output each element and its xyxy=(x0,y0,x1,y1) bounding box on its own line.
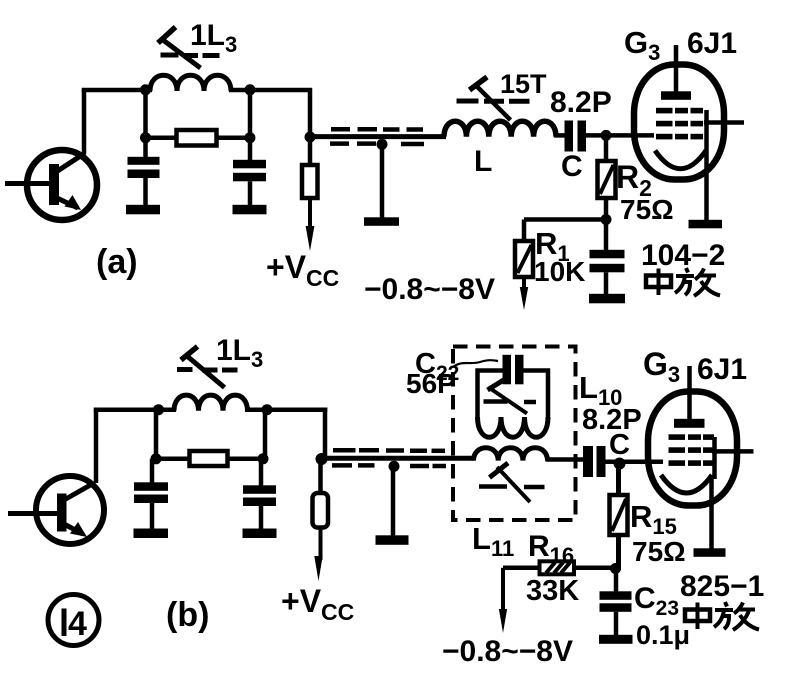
wire L11 to cap C (b) xyxy=(546,457,585,462)
bias arrow R1 (a) xyxy=(520,287,528,310)
svg-text:0.1μ: 0.1μ xyxy=(636,620,690,650)
resistor R1 xyxy=(515,241,533,291)
node lower-left xyxy=(140,132,151,143)
wire down mid branch (b) xyxy=(263,410,268,460)
adjustable core of L 15T xyxy=(457,77,530,120)
node lower-left (b) xyxy=(151,453,162,464)
wire R16 to bias arrow xyxy=(503,568,540,612)
wire shield ground stub (b) xyxy=(391,466,396,537)
wire coax center (a) xyxy=(310,134,446,139)
svg-text:15T: 15T xyxy=(500,69,547,99)
transistor Q2 xyxy=(8,476,104,544)
vacuum tube V1 6J1 (a) xyxy=(634,45,744,220)
node coax feed (b) xyxy=(316,453,328,465)
wire top rail left xyxy=(82,88,152,93)
inductor L11 winding xyxy=(474,448,548,461)
wire cap to tube grid (b) xyxy=(606,460,664,465)
adjustable core of L3 (a) xyxy=(158,27,220,68)
inductor L3 (b) xyxy=(174,395,248,411)
ground cathode (a) xyxy=(689,220,723,229)
wire top rail right (b) xyxy=(245,407,327,412)
capacitor left (a) xyxy=(128,139,160,206)
node top-right xyxy=(245,84,256,95)
wire shield ground stub (a) xyxy=(380,144,385,219)
capacitor C 8.2P (b) xyxy=(583,446,606,477)
leader line C22 xyxy=(453,360,498,367)
node R15 top xyxy=(614,458,626,470)
capacitor left (b) xyxy=(134,459,168,530)
figure number 14 xyxy=(48,595,99,646)
svg-text:75Ω: 75Ω xyxy=(620,194,674,225)
resistor R16 xyxy=(540,561,575,574)
wire cap to tube grid (a) xyxy=(586,133,654,138)
capacitor C23 xyxy=(600,569,632,637)
node top-right (b) xyxy=(262,404,273,415)
label zhongfang (b) xyxy=(685,602,759,630)
svg-text:10K: 10K xyxy=(534,256,585,287)
wire to R1 xyxy=(524,220,606,243)
vacuum tube V2 6J1 (b) xyxy=(648,366,754,549)
resistor feedback (a) xyxy=(177,130,217,146)
node lower-right xyxy=(245,132,256,143)
node shield ground (a) xyxy=(377,139,388,150)
svg-text:75Ω: 75Ω xyxy=(632,536,686,567)
ground C23 xyxy=(599,635,633,644)
adjustable core of L11 xyxy=(479,463,545,502)
svg-text:(a): (a) xyxy=(96,243,138,281)
node R2 top (a) xyxy=(601,130,612,141)
coax shield dashes bottom (a) xyxy=(330,141,424,146)
resistor R15 xyxy=(610,464,628,571)
ground mid cap (b) xyxy=(243,529,277,539)
wire corner down right (b) xyxy=(323,408,328,461)
power +Vcc arrow (b) xyxy=(314,556,322,581)
svg-text:33K: 33K xyxy=(526,575,579,607)
capacitor C 8.2P (a) xyxy=(565,121,587,152)
ground bypass cap (a) xyxy=(589,294,625,304)
label zhongfang (a) xyxy=(646,268,720,296)
inductor L3 (a) xyxy=(150,75,231,91)
ground left cap (b) xyxy=(134,529,169,539)
dashed box IF transformer xyxy=(453,347,576,521)
wire down mid branch xyxy=(248,90,253,139)
node top-left xyxy=(140,84,151,95)
node coax feed (a) xyxy=(305,132,316,143)
wire down left branch xyxy=(143,90,148,139)
node R15 bottom xyxy=(610,563,621,574)
resistor feedback (b) xyxy=(190,451,228,466)
node shield ground (b) xyxy=(389,461,400,472)
wire lower rail xyxy=(146,135,251,140)
wire coil to cap C (a) xyxy=(554,133,566,138)
ground shield (a) xyxy=(364,217,399,226)
svg-text:L: L xyxy=(474,145,492,178)
wire collector Q1 up xyxy=(82,90,87,154)
node top-left (b) xyxy=(153,404,164,415)
svg-text:825−1: 825−1 xyxy=(680,570,764,603)
node R2 bottom xyxy=(601,214,612,225)
inductor L 15T (a) xyxy=(444,121,556,137)
coax shield dashes top (a) xyxy=(331,127,423,132)
wire down left branch (b) xyxy=(154,410,159,460)
wire corner down right xyxy=(308,88,313,139)
wire lower rail (b) xyxy=(156,457,265,462)
svg-text:56P: 56P xyxy=(406,368,456,399)
resistor Vcc feed (b) xyxy=(313,459,329,560)
svg-text:C: C xyxy=(609,429,630,461)
wire collector Q2 up xyxy=(94,410,99,483)
adjustable core of L10 xyxy=(484,379,537,414)
coax shield dashes bottom (b) xyxy=(332,463,446,468)
capacitor mid (b) xyxy=(243,459,276,530)
svg-text:8.2P: 8.2P xyxy=(550,86,612,119)
transistor Q1 xyxy=(5,150,97,220)
ground mid cap (a) xyxy=(233,205,267,215)
power +Vcc arrow (a) xyxy=(306,226,315,251)
resistor R2 xyxy=(598,135,616,222)
adjustable core of L3 (b) xyxy=(177,347,238,388)
svg-text:−0.8~−8V: −0.8~−8V xyxy=(364,273,495,306)
coax shield dashes top (b) xyxy=(333,448,445,453)
resistor Vcc feed (a) xyxy=(302,139,318,231)
ground shield (b) xyxy=(376,535,409,545)
capacitor bypass (a) xyxy=(590,222,625,295)
wire top rail left (b) xyxy=(94,407,176,412)
svg-text:104−2: 104−2 xyxy=(641,239,725,272)
svg-text:−0.8~−8V: −0.8~−8V xyxy=(442,635,573,668)
wire R15 to R16 xyxy=(574,566,615,571)
svg-text:6J1: 6J1 xyxy=(687,27,737,60)
svg-text:(b): (b) xyxy=(166,596,209,634)
wire top rail right xyxy=(229,88,312,93)
inductor L10 winding xyxy=(478,417,549,437)
node lower-right (b) xyxy=(258,453,269,464)
ground left cap (a) xyxy=(126,205,160,215)
winding L10 loop xyxy=(476,369,551,420)
capacitor mid (a) xyxy=(233,139,266,206)
ground cathode (b) xyxy=(694,548,726,557)
capacitor C22 xyxy=(503,355,524,385)
svg-text:C: C xyxy=(561,150,583,183)
bias arrow (b) xyxy=(499,609,507,633)
wire coax center (b) xyxy=(325,456,474,461)
svg-text:4: 4 xyxy=(68,605,87,643)
svg-text:6J1: 6J1 xyxy=(697,353,747,386)
